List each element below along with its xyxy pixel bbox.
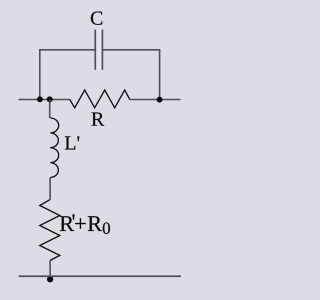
wire resistor to bottom node bbox=[49, 260, 51, 278]
wire inductor to resistor bbox=[49, 178, 51, 200]
junction dot inductor branch bbox=[47, 96, 53, 102]
resistor R'+R0 zigzag bbox=[40, 200, 60, 261]
label R'+R0 bbox=[60, 214, 110, 234]
wire top node bus right segment bbox=[130, 99, 181, 101]
wire capacitor to loop top-right bbox=[102, 49, 160, 51]
wire loop left leg bbox=[39, 50, 41, 100]
wire node to inductor bbox=[49, 100, 51, 119]
wire bottom bus bbox=[19, 275, 181, 277]
junction dot bottom bbox=[47, 276, 53, 282]
capacitor C gap bbox=[96, 30, 101, 71]
label L' bbox=[65, 136, 79, 149]
resistor R zigzag bbox=[70, 90, 130, 108]
label C bbox=[91, 11, 102, 24]
inductor L' bbox=[50, 118, 58, 178]
wire loop top-left to capacitor bbox=[39, 49, 95, 51]
wire top node bus left segment bbox=[19, 99, 70, 101]
capacitor C left plate bbox=[94, 30, 96, 70]
junction dot left bbox=[37, 96, 43, 102]
wire loop right leg bbox=[159, 50, 161, 100]
label R bbox=[92, 113, 105, 126]
junction dot right bbox=[157, 97, 163, 103]
capacitor C right plate bbox=[101, 30, 103, 70]
